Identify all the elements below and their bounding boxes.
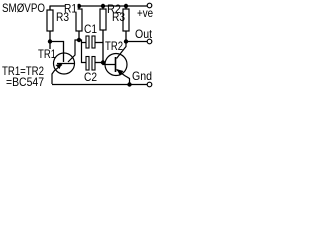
node rail junction above R2 [101,4,105,8]
TR1 base bar [57,63,75,65]
wire R2 bottom down to TR2 base [103,30,115,65]
TR2 base bar [115,57,117,72]
wire rail to R3b top [125,6,127,9]
wire rail to R2 top [102,6,104,9]
node TR2 base junction with C2 [101,60,105,64]
node rail junction above R1 [77,4,81,8]
wire collector node down to TR1 collector [68,40,79,62]
resistor R1 (TR1 collector load) [76,9,82,31]
resistor R3 (right, TR2 collector load) [123,9,129,31]
node TR1 collector junction [77,38,81,42]
wire node A to TR1 base [50,42,64,63]
wire ground rail [52,84,147,86]
svg-text:C1: C1 [84,22,97,36]
svg-text:R1: R1 [64,2,77,16]
terminal Gnd [147,82,152,87]
svg-text:SMØVPO: SMØVPO [2,1,45,15]
terminal Out [147,39,152,44]
wire R1 bottom to collector node [78,31,80,40]
TR1 emitter lead to ground rail [52,65,62,85]
label R1 [65,1,78,13]
wire C1 right plate to TR2 base net [95,42,103,44]
svg-text:Out: Out [135,27,153,41]
terminal +ve [147,3,152,8]
resistor R3 (left, TR1 base bias) [47,10,53,31]
wire rail to R1 top [78,6,80,9]
transistor TR1 (BC547, NPN) body [54,53,75,74]
resistor R2 (TR2 base bias) [100,9,106,30]
svg-text:TR1: TR1 [38,47,56,61]
node rail junction above R3b [124,4,128,8]
wire R3b bottom to Out node [125,31,127,42]
node Out junction [124,39,128,43]
svg-text:=BC547: =BC547 [6,75,44,89]
wire R3a bottom to node A [49,31,51,49]
TR2 collector lead to Out node [117,42,127,59]
svg-text:R3: R3 [112,10,125,24]
svg-text:C2: C2 [84,70,97,84]
wire Out [126,41,147,43]
capacitor C2 [86,57,89,71]
node A (junction on TR1 base net) [48,39,52,43]
wire rail down to R3a top [49,6,51,11]
wire C2 right plate to TR2 base node [95,62,103,64]
svg-text:TR2: TR2 [105,39,123,53]
wire collector node down to C2 left plate [82,43,87,63]
wire collector node to C1 left plate [79,40,86,43]
TR2 emitter lead to ground rail [117,70,130,85]
TR2 emitter arrow [118,70,123,75]
svg-text:+ve: +ve [137,6,153,20]
capacitor C1 [86,36,89,48]
node TR2 emitter junction on ground rail [127,82,131,86]
wire +ve supply rail [50,5,147,7]
svg-text:Gnd: Gnd [132,69,152,83]
transistor TR2 (BC547, NPN) body [105,54,127,76]
TR1 emitter arrow [56,64,61,68]
